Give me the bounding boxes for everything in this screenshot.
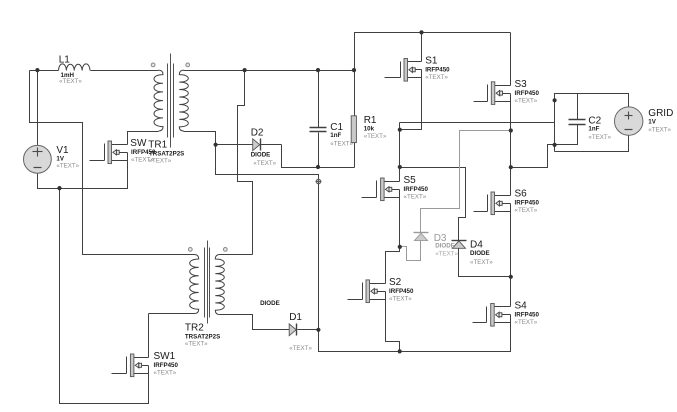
svg-text:«TEXT»: «TEXT» (470, 259, 493, 266)
svg-text:IRFP450: IRFP450 (154, 362, 179, 369)
svg-text:«TEXT»: «TEXT» (185, 341, 208, 348)
svg-text:D2: D2 (251, 128, 264, 139)
svg-text:IRFP450: IRFP450 (389, 288, 414, 295)
svg-text:«TEXT»: «TEXT» (404, 194, 427, 201)
svg-text:TRSAT2P2S: TRSAT2P2S (149, 150, 184, 157)
svg-text:«TEXT»: «TEXT» (364, 133, 387, 140)
svg-text:«TEXT»: «TEXT» (59, 78, 82, 85)
svg-text:«TEXT»: «TEXT» (289, 345, 312, 352)
svg-text:«TEXT»: «TEXT» (588, 134, 611, 141)
svg-text:IRFP450: IRFP450 (515, 312, 540, 319)
svg-text:«TEXT»: «TEXT» (389, 296, 412, 303)
svg-text:DIODE: DIODE (251, 152, 271, 159)
svg-text:S1: S1 (425, 56, 438, 67)
svg-text:«TEXT»: «TEXT» (515, 207, 538, 214)
svg-text:1nF: 1nF (330, 132, 341, 139)
svg-text:IRFP450: IRFP450 (515, 90, 540, 97)
svg-text:DIODE: DIODE (435, 243, 455, 250)
svg-text:DIODE: DIODE (260, 300, 280, 307)
svg-text:10k: 10k (364, 126, 375, 133)
svg-text:«TEXT»: «TEXT» (648, 126, 671, 133)
svg-text:1V: 1V (56, 156, 64, 163)
svg-text:R1: R1 (364, 115, 377, 126)
svg-text:«TEXT»: «TEXT» (435, 251, 458, 258)
svg-text:S5: S5 (404, 175, 417, 186)
svg-text:«TEXT»: «TEXT» (56, 163, 79, 170)
svg-text:TR2: TR2 (185, 322, 204, 333)
svg-text:V1: V1 (56, 145, 69, 156)
svg-text:SW: SW (130, 138, 147, 149)
svg-text:«TEXT»: «TEXT» (515, 319, 538, 326)
svg-text:«TEXT»: «TEXT» (154, 370, 177, 377)
svg-text:L1: L1 (59, 55, 71, 66)
svg-text:S3: S3 (515, 79, 528, 90)
svg-text:IRFP450: IRFP450 (404, 186, 429, 193)
svg-text:«TEXT»: «TEXT» (515, 97, 538, 104)
svg-text:«TEXT»: «TEXT» (149, 158, 172, 165)
svg-text:TRSAT2P2S: TRSAT2P2S (185, 333, 220, 340)
svg-text:1nF: 1nF (588, 126, 599, 133)
svg-text:D1: D1 (289, 312, 302, 323)
svg-text:S4: S4 (515, 301, 528, 312)
svg-text:D4: D4 (470, 240, 483, 251)
svg-text:«TEXT»: «TEXT» (425, 74, 448, 81)
svg-text:1V: 1V (648, 118, 656, 125)
svg-text:«TEXT»: «TEXT» (330, 140, 353, 147)
svg-text:S2: S2 (389, 277, 402, 288)
svg-text:S6: S6 (515, 189, 528, 200)
svg-text:IRFP450: IRFP450 (425, 67, 450, 74)
svg-text:«TEXT»: «TEXT» (253, 160, 276, 167)
svg-text:SW1: SW1 (154, 351, 176, 362)
svg-text:GRID: GRID (648, 108, 673, 119)
svg-text:IRFP450: IRFP450 (515, 200, 540, 207)
svg-text:DIODE: DIODE (470, 250, 490, 257)
